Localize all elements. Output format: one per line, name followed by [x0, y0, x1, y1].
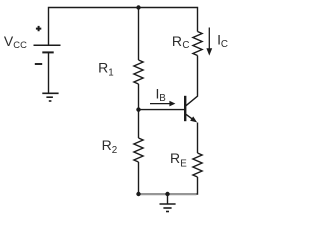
wire bottom rail (gray) — [137, 193, 197, 195]
svg-text:CC: CC — [13, 39, 27, 50]
svg-text:B: B — [159, 93, 166, 104]
svg-text:R: R — [98, 59, 108, 75]
svg-text:R: R — [170, 150, 180, 166]
current arrow IB — [150, 101, 175, 107]
plus sign — [36, 26, 41, 31]
svg-text:C: C — [221, 39, 228, 50]
svg-text:C: C — [182, 40, 189, 51]
battery plate + (long) — [34, 44, 61, 46]
svg-text:1: 1 — [108, 67, 113, 78]
svg-text:E: E — [180, 158, 187, 169]
svg-text:R: R — [102, 137, 112, 153]
wire R1 to R2 (through base node) — [138, 84, 140, 138]
resistor R1 — [134, 60, 143, 84]
svg-text:2: 2 — [112, 145, 117, 156]
node junction dot top (rail / R1 branch) — [136, 5, 140, 9]
battery plate - (short) — [42, 51, 53, 53]
wire base (node to transistor) — [139, 109, 185, 111]
svg-text:R: R — [172, 33, 182, 49]
wire ground stub — [167, 194, 169, 204]
transistor Q1 emitter with arrow — [186, 114, 197, 122]
node base junction dot — [136, 107, 140, 111]
wire left branch: rail to R1 — [138, 8, 140, 61]
wire R2 to bottom rail — [138, 162, 140, 194]
node bottom-left junction dot — [136, 192, 140, 196]
wire emitter to RE — [197, 123, 199, 154]
resistor RE — [193, 153, 202, 177]
wire RE to bottom rail corner — [193, 177, 198, 194]
resistor RC — [193, 32, 202, 56]
transistor Q1 base bar — [184, 96, 186, 121]
ground (left, battery) — [42, 93, 58, 101]
battery VCC — [34, 26, 61, 64]
ground (bottom) — [160, 204, 176, 212]
wire RC to collector — [186, 56, 198, 106]
node bottom ground junction dot — [165, 192, 169, 196]
resistor R2 — [134, 138, 143, 162]
current arrow IC — [206, 28, 212, 56]
wire top rail VCC to RC — [49, 8, 198, 46]
minus sign — [35, 63, 42, 65]
wire battery negative to ground — [48, 52, 50, 93]
